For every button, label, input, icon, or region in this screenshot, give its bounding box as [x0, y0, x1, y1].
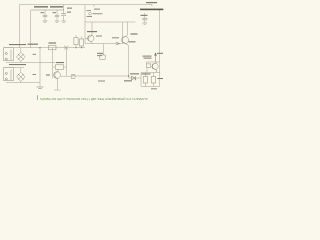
x junction symbol [64, 46, 68, 50]
text B1 label [56, 62, 64, 63]
text bus label right [50, 6, 63, 7]
wire right long vertical [159, 10, 161, 87]
wire mid rail bus [85, 21, 136, 23]
base resistor box [147, 64, 151, 68]
text terminal label [94, 9, 100, 10]
junction dot Rb [81, 47, 82, 48]
junction dot signal/ground [39, 47, 40, 48]
text K1 [9, 44, 26, 45]
junction dot Ra [75, 47, 76, 48]
text C6 label [141, 15, 148, 16]
wire T4 base drop [146, 62, 148, 64]
text T2 label [87, 31, 97, 32]
text C2 [53, 11, 57, 14]
text above arrow [112, 37, 119, 38]
node drop x=103.5 [103, 44, 105, 55]
terminal circle [89, 13, 92, 16]
wire collector chain [66, 48, 68, 76]
text K2 [9, 64, 26, 65]
resistor box R8 [143, 73, 147, 87]
terminal tick on rail [93, 5, 95, 8]
ground bar T1 [54, 89, 60, 91]
resistor box vertical Rb [79, 37, 83, 48]
resistor box R5 horizontal [49, 45, 57, 49]
wire top-left bus [31, 9, 65, 11]
connector K2 box [4, 68, 14, 81]
text right block row [142, 73, 151, 74]
text wire label [28, 44, 39, 45]
svg-text:SAMBA-PM ЦЕНТ ПЕРЕРАБ ОРЦ x ДВ: SAMBA-PM ЦЕНТ ПЕРЕРАБ ОРЦ x ДВГ ФЕЦ ШЛЕЙ… [40, 97, 149, 101]
text T3 label [131, 33, 138, 34]
transistor T4 [151, 62, 158, 73]
text T1 label [46, 75, 50, 76]
T1 emitter ground drop [56, 79, 58, 90]
wire left vertical drop [19, 5, 21, 49]
wire block1 bottom rail [6, 61, 55, 63]
capacitor C6 [142, 13, 147, 25]
trimmer box under node [100, 55, 105, 59]
text T4 labels [157, 53, 163, 54]
text C1 [41, 11, 45, 14]
text rail end label [146, 2, 157, 3]
wire top supply rail [20, 4, 153, 6]
capacitor C2 [55, 10, 60, 23]
text 0V [87, 15, 93, 18]
transistor T1 [53, 48, 61, 79]
text below right bus [151, 88, 157, 89]
bridge diamond X1 [17, 48, 26, 63]
text diamond1 note [33, 54, 37, 55]
wire bottom right bus [141, 86, 160, 88]
capacitor C1 [43, 10, 48, 23]
wire out row right block [141, 72, 160, 74]
text bus label left [34, 6, 48, 7]
trimpot P1 [61, 75, 75, 79]
arrow into T4 [155, 53, 157, 62]
diode D1 [132, 76, 136, 80]
wire left vert right block [140, 73, 142, 87]
transistor T2 [85, 22, 94, 44]
wire diode branch [129, 77, 141, 79]
resistor box B1 [53, 65, 67, 70]
resistor box vertical Ra [74, 35, 78, 48]
text diode label [130, 73, 139, 74]
text C3 label [67, 8, 72, 9]
caption green text [37, 95, 39, 100]
bridge diamond X2 [17, 68, 26, 83]
wire bus to signal vertical [30, 10, 32, 48]
text supply dashes [93, 12, 103, 15]
text address line dark [140, 9, 163, 11]
text trimmer label [97, 53, 103, 54]
text under long wire [98, 81, 105, 82]
text mid label [96, 36, 102, 37]
transistor T3 [122, 22, 129, 46]
wire T3 emitter down [128, 46, 130, 78]
node ground drop [39, 48, 41, 87]
tiny dark text marks [9, 2, 163, 89]
capacitor C3 electrolytic [61, 10, 66, 23]
wire bus drop to T3 base [121, 22, 123, 37]
node dot emitter branch [128, 75, 129, 76]
signal arrow [116, 42, 120, 45]
text emitter label [129, 41, 136, 42]
connector K1 box [4, 48, 14, 61]
rail end tick [151, 5, 153, 7]
wire rail to bus connector [63, 5, 65, 11]
wire block2 bottom rail [6, 82, 40, 84]
text 9V [87, 9, 92, 12]
wire base line mid [85, 43, 122, 45]
main signal wire [4, 47, 85, 49]
ground bar [37, 87, 44, 89]
supply vertical wire [84, 5, 86, 44]
resistor box R9 [151, 73, 155, 87]
connector K2 wire [4, 67, 24, 69]
text right of boxes [158, 78, 164, 79]
wire long feedback bottom [75, 75, 128, 77]
wire T4 top row [147, 61, 160, 63]
tick below diode wire [135, 78, 137, 81]
text diamond2 note [33, 74, 37, 75]
text R5 label [49, 42, 57, 43]
